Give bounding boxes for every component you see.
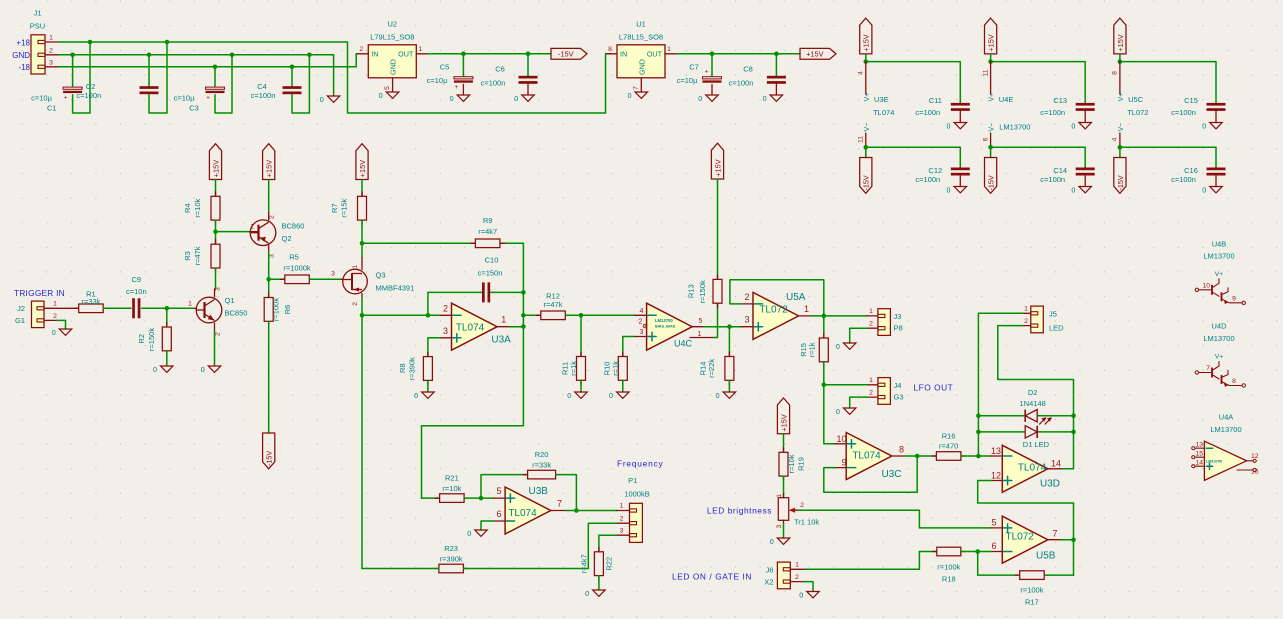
svg-text:5: 5 bbox=[991, 517, 996, 527]
svg-text:U5B: U5B bbox=[1036, 551, 1056, 562]
svg-text:16: 16 bbox=[1251, 469, 1259, 476]
svg-text:r=470: r=470 bbox=[939, 441, 958, 450]
svg-text:7: 7 bbox=[633, 86, 640, 90]
svg-text:8: 8 bbox=[899, 444, 904, 454]
svg-text:c=100n: c=100n bbox=[1171, 175, 1196, 184]
svg-text:R4: R4 bbox=[183, 203, 192, 213]
svg-text:LM13700: LM13700 bbox=[655, 318, 673, 323]
svg-text:+15V: +15V bbox=[265, 160, 274, 178]
svg-text:R18: R18 bbox=[942, 575, 956, 584]
svg-text:r=1k: r=1k bbox=[808, 342, 817, 357]
svg-text:J4: J4 bbox=[894, 381, 902, 390]
svg-text:0: 0 bbox=[836, 407, 840, 416]
svg-text:R2: R2 bbox=[137, 334, 146, 344]
svg-text:r=4k7: r=4k7 bbox=[580, 554, 589, 573]
svg-text:C16: C16 bbox=[1184, 166, 1198, 175]
svg-text:2: 2 bbox=[53, 313, 57, 320]
svg-text:r=47k: r=47k bbox=[544, 300, 563, 309]
svg-text:R21: R21 bbox=[445, 473, 459, 482]
svg-text:c=10µ: c=10µ bbox=[677, 76, 698, 85]
svg-text:R9: R9 bbox=[483, 216, 493, 225]
svg-text:r=33k: r=33k bbox=[532, 460, 551, 469]
svg-text:-15V: -15V bbox=[265, 451, 274, 466]
svg-text:C7: C7 bbox=[689, 63, 699, 72]
svg-text:LM13700: LM13700 bbox=[1203, 334, 1234, 343]
svg-text:r=150k: r=150k bbox=[698, 280, 707, 303]
svg-text:IN: IN bbox=[620, 50, 627, 59]
svg-text:c=100n: c=100n bbox=[729, 79, 754, 88]
svg-text:8: 8 bbox=[1112, 71, 1119, 75]
svg-text:2: 2 bbox=[795, 574, 799, 581]
svg-text:U5C: U5C bbox=[1128, 95, 1144, 104]
svg-text:+15V: +15V bbox=[806, 50, 824, 59]
svg-text:2: 2 bbox=[49, 47, 53, 54]
svg-text:+15V: +15V bbox=[211, 160, 220, 178]
svg-text:V+: V+ bbox=[1215, 271, 1224, 278]
svg-text:c=100n: c=100n bbox=[1171, 108, 1196, 117]
svg-text:c=100n: c=100n bbox=[481, 79, 506, 88]
svg-text:1: 1 bbox=[49, 35, 53, 42]
svg-text:C12: C12 bbox=[928, 166, 942, 175]
svg-text:+: + bbox=[705, 68, 709, 75]
svg-text:Q2: Q2 bbox=[282, 234, 292, 243]
svg-text:1000kB: 1000kB bbox=[624, 490, 649, 499]
svg-text:V−: V− bbox=[1118, 123, 1125, 132]
svg-text:0: 0 bbox=[153, 365, 157, 374]
svg-text:1: 1 bbox=[250, 224, 254, 231]
svg-text:U4C: U4C bbox=[674, 339, 693, 349]
svg-text:BC850: BC850 bbox=[225, 309, 248, 318]
svg-text:3: 3 bbox=[269, 254, 276, 258]
svg-text:3: 3 bbox=[640, 329, 644, 336]
svg-text:c=100n: c=100n bbox=[1040, 175, 1065, 184]
svg-text:r=10k: r=10k bbox=[787, 454, 796, 473]
svg-text:LM13700: LM13700 bbox=[1210, 425, 1241, 434]
svg-text:c=150n: c=150n bbox=[478, 269, 503, 278]
svg-text:LFO OUT: LFO OUT bbox=[914, 382, 954, 392]
svg-text:R22: R22 bbox=[605, 557, 614, 571]
svg-text:+: + bbox=[64, 94, 68, 101]
svg-text:L78L15_SO8: L78L15_SO8 bbox=[619, 33, 663, 42]
svg-text:U4A: U4A bbox=[1219, 413, 1234, 422]
svg-text:U4D: U4D bbox=[1211, 322, 1227, 331]
svg-text:1: 1 bbox=[698, 331, 702, 338]
svg-text:OUT: OUT bbox=[398, 50, 414, 59]
svg-text:3: 3 bbox=[215, 287, 222, 291]
svg-text:c=10n: c=10n bbox=[126, 287, 147, 296]
svg-text:U3D: U3D bbox=[1040, 478, 1060, 489]
svg-text:0: 0 bbox=[609, 391, 613, 400]
svg-text:3: 3 bbox=[49, 59, 53, 66]
svg-text:R13: R13 bbox=[686, 284, 695, 298]
svg-text:13: 13 bbox=[1195, 442, 1203, 449]
svg-text:U3E: U3E bbox=[874, 95, 889, 104]
svg-text:BC860: BC860 bbox=[282, 222, 305, 231]
svg-text:V+: V+ bbox=[989, 93, 996, 102]
svg-text:C10: C10 bbox=[485, 256, 499, 265]
svg-text:LED ON / GATE IN: LED ON / GATE IN bbox=[672, 572, 752, 582]
svg-text:14: 14 bbox=[1051, 458, 1061, 468]
svg-text:0: 0 bbox=[514, 94, 518, 103]
svg-text:12: 12 bbox=[1251, 453, 1259, 460]
svg-text:-15V: -15V bbox=[862, 175, 871, 190]
svg-text:r=47k: r=47k bbox=[193, 246, 202, 265]
svg-text:14: 14 bbox=[1195, 460, 1203, 467]
svg-text:P1: P1 bbox=[628, 476, 637, 485]
svg-text:0: 0 bbox=[201, 365, 205, 374]
svg-text:R17: R17 bbox=[1025, 598, 1039, 607]
svg-text:8: 8 bbox=[1232, 378, 1236, 385]
svg-text:C4: C4 bbox=[257, 82, 267, 91]
svg-text:Frequency: Frequency bbox=[617, 459, 663, 469]
svg-text:0: 0 bbox=[467, 529, 471, 538]
svg-text:LM13700: LM13700 bbox=[1206, 460, 1222, 464]
svg-text:0: 0 bbox=[414, 391, 418, 400]
svg-text:J3: J3 bbox=[894, 312, 902, 321]
svg-text:TL074: TL074 bbox=[873, 108, 894, 117]
svg-text:U5A: U5A bbox=[786, 292, 806, 303]
svg-text:r=22k: r=22k bbox=[707, 359, 716, 378]
svg-text:r=100k: r=100k bbox=[272, 298, 281, 321]
svg-text:J5: J5 bbox=[1049, 309, 1057, 318]
svg-text:5: 5 bbox=[384, 86, 391, 90]
svg-text:C3: C3 bbox=[189, 104, 199, 113]
svg-text:2: 2 bbox=[869, 320, 873, 327]
svg-text:C1: C1 bbox=[47, 104, 57, 113]
svg-text:0: 0 bbox=[836, 342, 840, 351]
svg-text:1N4148: 1N4148 bbox=[1020, 399, 1046, 408]
svg-text:+: + bbox=[206, 94, 210, 101]
svg-text:0: 0 bbox=[379, 91, 383, 100]
svg-text:r=390k: r=390k bbox=[408, 357, 417, 380]
svg-text:6: 6 bbox=[496, 509, 501, 519]
svg-text:1: 1 bbox=[667, 46, 671, 53]
svg-text:1: 1 bbox=[804, 304, 809, 314]
svg-text:D2: D2 bbox=[1028, 388, 1038, 397]
svg-text:BIAS_BIAS: BIAS_BIAS bbox=[655, 324, 676, 328]
svg-text:r=33k: r=33k bbox=[81, 297, 100, 306]
svg-text:r=100k: r=100k bbox=[937, 563, 960, 572]
svg-text:J1: J1 bbox=[34, 9, 42, 18]
svg-text:3: 3 bbox=[620, 527, 624, 534]
svg-text:1: 1 bbox=[501, 315, 506, 325]
svg-text:0: 0 bbox=[450, 94, 454, 103]
svg-text:r=390k: r=390k bbox=[440, 555, 463, 564]
svg-text:V+: V+ bbox=[864, 93, 871, 102]
svg-text:1: 1 bbox=[352, 265, 359, 269]
svg-text:2: 2 bbox=[359, 46, 363, 53]
svg-text:R19: R19 bbox=[796, 457, 805, 471]
svg-text:2: 2 bbox=[215, 332, 222, 336]
svg-text:V+: V+ bbox=[1215, 354, 1224, 361]
svg-text:r=1k: r=1k bbox=[569, 361, 578, 376]
svg-text:c=100n: c=100n bbox=[251, 91, 276, 100]
svg-text:2: 2 bbox=[443, 303, 448, 313]
svg-text:+: + bbox=[455, 84, 459, 91]
svg-text:D1 LED: D1 LED bbox=[1023, 440, 1050, 449]
svg-text:0: 0 bbox=[628, 91, 632, 100]
svg-text:1: 1 bbox=[418, 46, 422, 53]
svg-text:-15V: -15V bbox=[987, 175, 996, 190]
svg-text:r=1000k: r=1000k bbox=[283, 264, 311, 273]
svg-text:r=10k: r=10k bbox=[193, 198, 202, 217]
svg-text:8: 8 bbox=[608, 46, 612, 53]
svg-text:V−: V− bbox=[989, 123, 996, 132]
svg-text:+15V: +15V bbox=[1116, 34, 1125, 52]
svg-text:1: 1 bbox=[188, 301, 192, 308]
svg-text:r=15k: r=15k bbox=[340, 198, 349, 217]
svg-text:3: 3 bbox=[744, 315, 749, 325]
svg-text:C2: C2 bbox=[86, 82, 96, 91]
svg-text:7: 7 bbox=[1052, 529, 1057, 539]
svg-text:LED brightness: LED brightness bbox=[707, 506, 772, 516]
svg-text:9: 9 bbox=[841, 458, 846, 468]
svg-text:L79L15_SO8: L79L15_SO8 bbox=[370, 33, 414, 42]
svg-text:U1: U1 bbox=[636, 20, 646, 29]
svg-text:LED: LED bbox=[1049, 323, 1064, 332]
svg-text:0: 0 bbox=[763, 94, 767, 103]
svg-text:c=10µ: c=10µ bbox=[31, 94, 52, 103]
svg-text:-15V: -15V bbox=[1116, 175, 1125, 190]
svg-text:C14: C14 bbox=[1053, 166, 1067, 175]
svg-text:GND: GND bbox=[389, 59, 398, 75]
svg-text:6: 6 bbox=[982, 137, 989, 141]
svg-text:0: 0 bbox=[947, 186, 951, 195]
svg-text:7: 7 bbox=[1206, 365, 1210, 372]
svg-text:c=100n: c=100n bbox=[76, 91, 101, 100]
svg-text:c=10µ: c=10µ bbox=[174, 94, 195, 103]
svg-text:6: 6 bbox=[991, 541, 996, 551]
svg-text:c=100n: c=100n bbox=[915, 108, 940, 117]
svg-text:1: 1 bbox=[776, 494, 783, 498]
svg-text:V−: V− bbox=[864, 123, 871, 132]
svg-text:X2: X2 bbox=[764, 578, 773, 587]
svg-text:10: 10 bbox=[1202, 282, 1210, 289]
svg-text:+15V: +15V bbox=[779, 414, 788, 432]
svg-text:+15V: +15V bbox=[358, 160, 367, 178]
svg-text:C15: C15 bbox=[1184, 96, 1198, 105]
svg-text:r=4k7: r=4k7 bbox=[478, 227, 497, 236]
svg-text:2: 2 bbox=[620, 515, 624, 522]
svg-text:4: 4 bbox=[1112, 137, 1119, 141]
svg-text:13: 13 bbox=[991, 446, 1001, 456]
svg-text:GND: GND bbox=[637, 59, 646, 75]
svg-text:0: 0 bbox=[567, 391, 571, 400]
svg-text:2: 2 bbox=[800, 502, 804, 509]
svg-text:2: 2 bbox=[869, 389, 873, 396]
svg-text:2: 2 bbox=[744, 292, 749, 302]
svg-text:G3: G3 bbox=[894, 393, 904, 402]
svg-text:r=150k: r=150k bbox=[147, 328, 156, 351]
svg-text:r=1k: r=1k bbox=[611, 361, 620, 376]
svg-text:1: 1 bbox=[869, 308, 873, 315]
svg-text:1: 1 bbox=[795, 561, 799, 568]
svg-text:0: 0 bbox=[1202, 122, 1206, 131]
svg-text:5: 5 bbox=[496, 486, 501, 496]
svg-text:TL072: TL072 bbox=[1127, 108, 1148, 117]
svg-text:R16: R16 bbox=[942, 431, 956, 440]
svg-text:0: 0 bbox=[52, 328, 56, 337]
svg-text:3: 3 bbox=[443, 326, 448, 336]
svg-text:0: 0 bbox=[320, 95, 324, 104]
svg-text:11: 11 bbox=[858, 136, 865, 143]
svg-text:MMBF4391: MMBF4391 bbox=[376, 284, 415, 293]
svg-text:TRIGGER IN: TRIGGER IN bbox=[14, 288, 65, 298]
svg-text:TL074: TL074 bbox=[456, 322, 485, 333]
svg-text:3: 3 bbox=[776, 524, 783, 528]
svg-text:U3A: U3A bbox=[491, 334, 511, 345]
svg-text:+15V: +15V bbox=[862, 34, 871, 52]
svg-text:C11: C11 bbox=[929, 96, 942, 105]
svg-text:TL074: TL074 bbox=[852, 450, 881, 461]
svg-text:Tr1 10k: Tr1 10k bbox=[794, 518, 819, 527]
svg-text:U3C: U3C bbox=[882, 469, 902, 480]
svg-text:IN: IN bbox=[371, 50, 378, 59]
svg-text:4: 4 bbox=[640, 308, 644, 315]
svg-text:+15V: +15V bbox=[713, 159, 722, 177]
svg-text:0: 0 bbox=[585, 589, 589, 598]
svg-text:U3B: U3B bbox=[529, 486, 549, 497]
svg-text:R23: R23 bbox=[444, 544, 458, 553]
svg-text:-15V: -15V bbox=[558, 50, 574, 59]
svg-text:R5: R5 bbox=[289, 253, 299, 262]
svg-text:G1: G1 bbox=[15, 316, 25, 325]
svg-text:r=10k: r=10k bbox=[442, 484, 461, 493]
svg-text:R20: R20 bbox=[535, 450, 549, 459]
svg-text:TL072: TL072 bbox=[759, 305, 788, 316]
svg-text:12: 12 bbox=[991, 471, 1001, 481]
svg-text:U4B: U4B bbox=[1212, 239, 1227, 248]
svg-text:V+: V+ bbox=[1118, 93, 1125, 102]
svg-text:10: 10 bbox=[836, 434, 846, 444]
svg-text:TL072: TL072 bbox=[1006, 532, 1035, 543]
svg-text:PSU: PSU bbox=[30, 22, 45, 31]
svg-text:2: 2 bbox=[1024, 318, 1028, 325]
svg-text:c=100n: c=100n bbox=[1040, 108, 1065, 117]
svg-text:Q3: Q3 bbox=[376, 271, 386, 280]
svg-text:0: 0 bbox=[799, 591, 803, 600]
svg-text:C13: C13 bbox=[1053, 96, 1067, 105]
svg-text:LM13700: LM13700 bbox=[999, 123, 1030, 132]
svg-text:c=100n: c=100n bbox=[915, 175, 940, 184]
svg-text:c=10µ: c=10µ bbox=[427, 76, 448, 85]
svg-text:R3: R3 bbox=[183, 251, 192, 261]
svg-text:-18: -18 bbox=[18, 63, 30, 72]
svg-text:4: 4 bbox=[858, 71, 865, 75]
svg-text:J2: J2 bbox=[17, 304, 25, 313]
svg-text:1: 1 bbox=[620, 503, 624, 510]
svg-text:15: 15 bbox=[1195, 451, 1203, 458]
svg-text:TL074: TL074 bbox=[1018, 463, 1047, 474]
svg-text:2: 2 bbox=[352, 302, 359, 306]
svg-text:0: 0 bbox=[770, 537, 774, 546]
svg-text:+15V: +15V bbox=[987, 34, 996, 52]
svg-text:9: 9 bbox=[1232, 295, 1236, 302]
svg-text:1: 1 bbox=[1024, 305, 1028, 312]
svg-text:+18: +18 bbox=[16, 38, 30, 47]
svg-text:2: 2 bbox=[269, 215, 276, 219]
svg-text:R8: R8 bbox=[398, 363, 407, 373]
svg-text:11: 11 bbox=[982, 69, 989, 76]
svg-text:C6: C6 bbox=[495, 65, 505, 74]
svg-text:R6: R6 bbox=[283, 305, 292, 315]
svg-text:0: 0 bbox=[1202, 186, 1206, 195]
svg-text:R7: R7 bbox=[330, 203, 339, 213]
svg-text:J6: J6 bbox=[765, 565, 773, 574]
svg-text:U2: U2 bbox=[388, 20, 398, 29]
svg-text:0: 0 bbox=[698, 94, 702, 103]
svg-text:0: 0 bbox=[947, 122, 951, 131]
svg-text:r=100k: r=100k bbox=[1020, 586, 1043, 595]
svg-text:LM13700: LM13700 bbox=[1203, 252, 1234, 261]
svg-text:5: 5 bbox=[699, 318, 703, 325]
svg-text:P8: P8 bbox=[894, 324, 903, 333]
svg-text:GND: GND bbox=[12, 51, 30, 60]
svg-text:1: 1 bbox=[869, 377, 873, 384]
svg-text:OUT: OUT bbox=[647, 50, 663, 59]
svg-text:2: 2 bbox=[639, 318, 643, 325]
svg-text:0: 0 bbox=[1071, 186, 1075, 195]
svg-text:Q1: Q1 bbox=[225, 296, 235, 305]
svg-text:1: 1 bbox=[53, 301, 57, 308]
svg-text:3: 3 bbox=[331, 271, 335, 278]
svg-text:7: 7 bbox=[557, 499, 562, 509]
svg-text:TL074: TL074 bbox=[508, 508, 537, 519]
svg-text:C5: C5 bbox=[440, 63, 450, 72]
svg-text:C9: C9 bbox=[132, 275, 142, 284]
svg-text:C8: C8 bbox=[743, 65, 753, 74]
svg-text:U4E: U4E bbox=[999, 95, 1014, 104]
svg-text:0: 0 bbox=[716, 391, 720, 400]
svg-text:0: 0 bbox=[1071, 122, 1075, 131]
